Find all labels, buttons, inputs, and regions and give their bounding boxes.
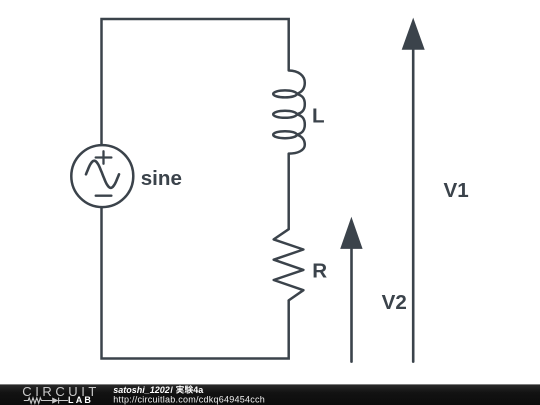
sine waveform [86,161,119,188]
plus sign [96,151,112,163]
svg-text:http://circuitlab.com/cdkq6494: http://circuitlab.com/cdkq649454cch [113,395,265,405]
svg-text:LAB: LAB [68,395,93,405]
svg-text:R: R [312,260,327,283]
wire loop lower: left-down, bottom, right-down [102,207,289,359]
svg-text:V2: V2 [382,291,407,314]
arrow V2 head [340,217,362,249]
voltage source V_sine circle [71,145,133,207]
svg-text:4a: 4a [193,385,204,395]
inductor L coil [289,71,305,154]
minus sign [96,195,112,197]
svg-text:V1: V1 [444,179,469,202]
kanji jikken 4a [176,385,193,393]
svg-text:sine: sine [141,167,182,190]
wire right middle [287,154,290,230]
arrow V1 line [412,50,415,362]
resistor R zigzag [274,229,304,300]
svg-text:satoshi_1202: satoshi_1202 [113,385,170,395]
svg-text:L: L [312,105,325,128]
logo diode triangle [52,398,58,404]
arrow V2 line [350,249,353,362]
arrow V1 head [402,18,425,50]
logo resistor-diode line [24,398,68,404]
wire loop upper: left-up, top, right-up [102,19,289,145]
